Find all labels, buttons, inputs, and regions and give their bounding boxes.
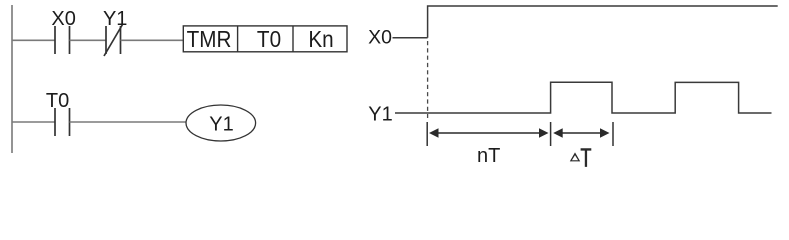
wire rung2 rail to T0 [12, 121, 55, 123]
wire X0 stub [393, 37, 428, 39]
svg-text:T0: T0 [46, 90, 69, 112]
svg-text:nT: nT [477, 145, 500, 167]
svg-text:Y1: Y1 [368, 104, 392, 126]
dimension arrow nT [429, 128, 549, 137]
svg-text:Y1: Y1 [209, 114, 233, 136]
wire X0 to Y1 [70, 39, 107, 41]
dimension tick middle [550, 122, 552, 146]
svg-text:X0: X0 [51, 8, 75, 30]
contact Y1 (normally closed) [104, 25, 123, 57]
svg-text:TMR: TMR [187, 26, 232, 52]
contact T0 (normally open) [55, 108, 70, 136]
label deltaT (triangle + T glyph) [570, 148, 592, 167]
wire T0 to coil Y1 [70, 121, 187, 123]
coil Y1 (output) [186, 105, 256, 141]
dimension arrow deltaT [553, 128, 609, 137]
svg-text:Kn: Kn [308, 26, 333, 52]
svg-text:X0: X0 [368, 27, 392, 49]
dimension tick left (nT) [426, 122, 428, 146]
X0 waveform rising edge and high level [428, 6, 778, 38]
wire Y1 to TMR box [121, 39, 184, 41]
svg-text:Y1: Y1 [103, 8, 127, 30]
TMR instruction box [183, 26, 347, 52]
svg-text:T0: T0 [257, 26, 281, 52]
dashed reference line at X0 rising edge [427, 41, 429, 118]
left power rail [11, 5, 13, 153]
contact X0 (normally open) [55, 26, 70, 54]
dimension tick right [612, 122, 614, 146]
Y1 waveform [395, 82, 772, 113]
wire rung1 rail to X0 [12, 39, 55, 41]
